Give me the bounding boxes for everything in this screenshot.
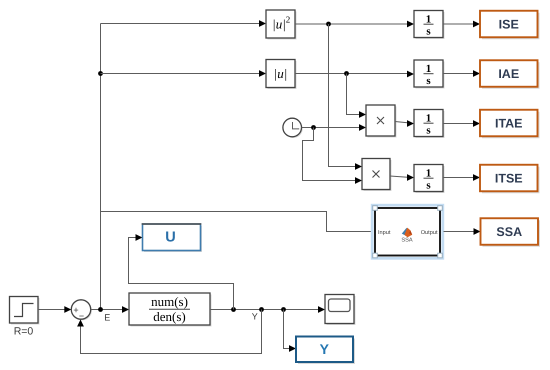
step block R=0 — [10, 297, 40, 325]
svg-text:Y: Y — [320, 341, 330, 357]
svg-text:SSA: SSA — [401, 238, 412, 244]
svg-text:Y: Y — [252, 312, 258, 322]
svg-text:R=0: R=0 — [14, 326, 34, 338]
wire: |u| to integrator 2 — [295, 71, 414, 78]
svg-text:U: U — [165, 230, 175, 246]
wire: integrator 1 to display ISE — [443, 21, 480, 28]
display block ITSE — [480, 165, 540, 194]
svg-text:−: − — [79, 311, 84, 321]
MATLAB function block SSA (selected) — [372, 205, 443, 258]
svg-text:den(s): den(s) — [153, 309, 186, 324]
svg-text:|u|: |u| — [274, 66, 288, 81]
display block IAE — [480, 60, 540, 89]
wire: step to sum — [38, 306, 71, 313]
wire: Y branch to workspace Y — [284, 310, 297, 352]
clock block — [283, 118, 303, 138]
svg-text:Input: Input — [378, 230, 391, 236]
svg-text:+: + — [73, 305, 78, 315]
wire: main vertical E line — [100, 24, 102, 310]
svg-text:num(s): num(s) — [151, 294, 188, 309]
wire: feedback to U block — [129, 234, 234, 309]
scope block — [325, 295, 356, 326]
wire: clock jog down to product ITSE (bottom input) — [303, 128, 363, 184]
abs-square block |u|^2 — [266, 10, 297, 40]
wire: E to |u|^2 branch — [101, 20, 267, 27]
matlab logo — [402, 228, 408, 235]
integrator block 1/s #2 — [414, 60, 445, 89]
junction: U branch — [231, 307, 236, 312]
wire: |u| down to product ITAE (top input) — [347, 74, 367, 118]
wire: E to |u| branch — [101, 70, 267, 77]
integrator block 1/s #1 — [414, 11, 445, 40]
svg-text:SSA: SSA — [496, 225, 522, 239]
product block ITSE (x) — [362, 159, 392, 192]
display block SSA — [481, 218, 541, 247]
wire: product ITAE to integrator 3 — [395, 120, 414, 127]
junction: |u| branch — [344, 71, 349, 76]
junction: E line to |u| branch — [98, 71, 103, 76]
wire: transfer fcn output to scope — [210, 306, 325, 313]
wire: integrator 3 to display ITAE — [443, 120, 480, 127]
junction: E node — [98, 307, 103, 312]
junction: Y branch — [281, 307, 286, 312]
svg-text:s: s — [426, 125, 431, 137]
wire: feedback loop to sum — [77, 310, 261, 354]
transfer fcn block num(s)/den(s) — [129, 293, 212, 327]
svg-text:s: s — [426, 26, 431, 38]
wire: integrator 2 to display IAE — [443, 70, 480, 77]
display block ITAE — [480, 110, 540, 139]
wire: clock to product ITAE (bottom input) — [302, 124, 366, 131]
wire: sum to transfer fcn — [91, 306, 129, 313]
svg-text:ITSE: ITSE — [495, 172, 523, 186]
abs block |u| — [266, 60, 297, 90]
wire: E line to SSA input — [101, 212, 374, 232]
svg-text:ISE: ISE — [499, 18, 519, 32]
product block ITAE (x) — [366, 105, 397, 138]
selection handles — [373, 206, 443, 258]
svg-text:IAE: IAE — [498, 67, 519, 81]
junction: feedback branch — [259, 307, 264, 312]
wire: u^2 down to product ITSE (top input) — [329, 24, 363, 170]
svg-text:|u|: |u| — [272, 17, 286, 32]
wire: product ITSE to integrator 4 — [390, 174, 414, 181]
wire: |u|^2 to integrator 1 — [295, 21, 414, 28]
to-workspace block U — [142, 224, 202, 252]
integrator block 1/s #4 — [414, 165, 445, 194]
junction: u^2 branch — [326, 22, 331, 27]
svg-text:Output: Output — [421, 230, 438, 236]
svg-text:s: s — [426, 180, 431, 192]
integrator block 1/s #3 — [414, 110, 445, 139]
display block ISE — [480, 11, 540, 40]
wire: SSA output to display SSA — [444, 228, 481, 235]
sum block — [71, 300, 92, 321]
junction: clock branch — [311, 125, 316, 130]
svg-text:2: 2 — [286, 15, 291, 25]
wire: integrator 4 to display ITSE — [443, 174, 480, 181]
to-workspace block Y — [296, 337, 355, 365]
svg-text:ITAE: ITAE — [495, 117, 523, 131]
svg-text:E: E — [104, 312, 110, 322]
svg-text:s: s — [426, 75, 431, 87]
